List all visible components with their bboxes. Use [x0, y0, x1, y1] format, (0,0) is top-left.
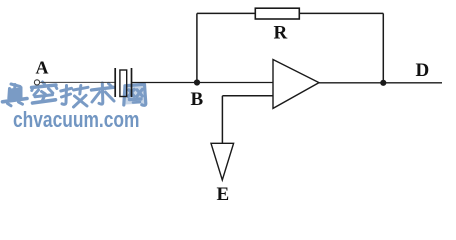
- node D junction dot: [380, 80, 386, 86]
- resistor R: [255, 8, 299, 19]
- crystal X1 body: [120, 70, 127, 97]
- svg-text:E: E: [217, 184, 230, 205]
- terminal A (open circle): [34, 80, 39, 85]
- wire feedback left vertical: [196, 13, 198, 82]
- svg-text:A: A: [36, 58, 49, 78]
- wire feedback top left segment: [197, 12, 255, 14]
- wire crystal to node B: [132, 82, 198, 84]
- probe E triangle: [211, 143, 234, 180]
- watermark char 技: [61, 86, 88, 108]
- wire op-amp lower input: [222, 95, 273, 97]
- op-amp U1: [273, 60, 319, 109]
- wire A to crystal: [40, 81, 116, 83]
- watermark char 网: [124, 84, 146, 105]
- wire feedback right vertical: [382, 13, 384, 82]
- wire op-amp output to node D: [319, 82, 383, 84]
- crystal X1 right plate: [131, 68, 133, 97]
- crystal X1 left plate: [114, 68, 116, 97]
- svg-text:B: B: [191, 89, 204, 110]
- watermark char 术: [92, 83, 115, 104]
- watermark char 真: [3, 84, 28, 106]
- svg-text:chvacuum.com: chvacuum.com: [13, 108, 139, 132]
- wire down to E: [221, 96, 223, 144]
- svg-text:R: R: [274, 23, 288, 44]
- wire feedback top right segment: [299, 12, 383, 14]
- watermark char 空: [32, 82, 57, 103]
- wire node B to op-amp input: [197, 82, 273, 84]
- svg-text:D: D: [416, 60, 430, 81]
- wire node D to output terminal: [383, 82, 442, 84]
- watermark 真空技术网: [3, 82, 146, 107]
- node B junction dot: [194, 79, 200, 85]
